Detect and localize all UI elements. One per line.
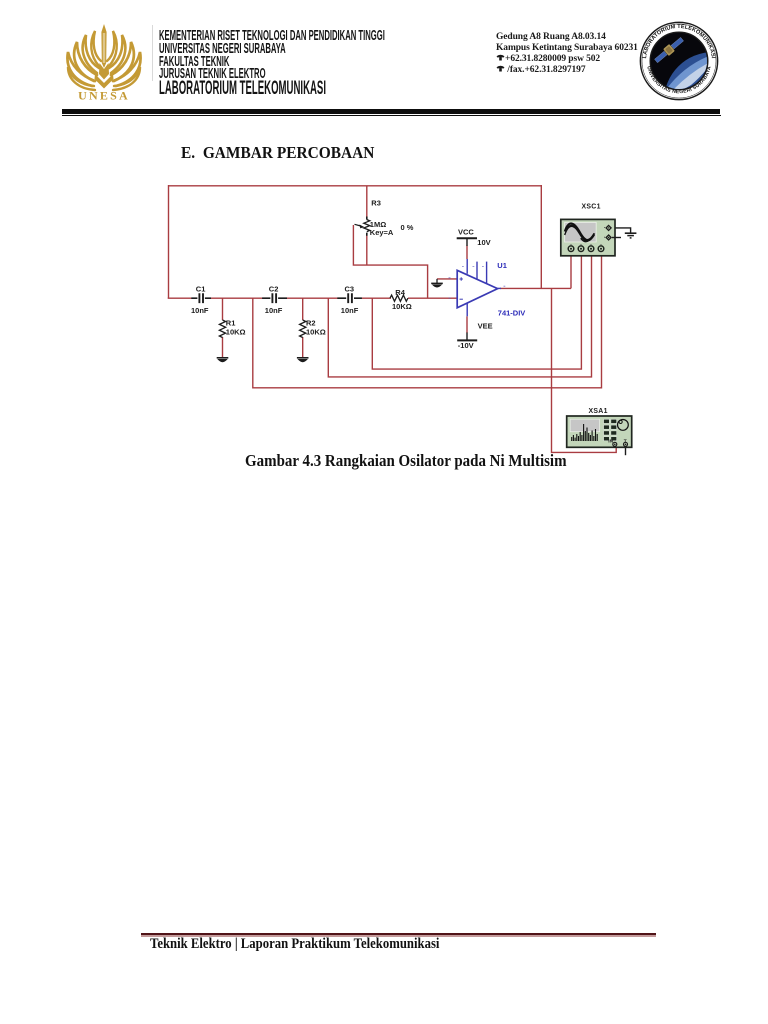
label C3 value: [341, 284, 359, 315]
svg-text:XSC1: XSC1: [582, 204, 601, 211]
wire main line segment C: [286, 297, 338, 299]
svg-text:VCC: VCC: [458, 227, 474, 236]
wire tap node1 to scope D: [253, 251, 602, 387]
capacitor C3: [337, 293, 362, 303]
svg-text:R1: R1: [226, 318, 236, 327]
wire R1 bottom to ground: [222, 337, 224, 358]
svg-text:10KΩ: 10KΩ: [392, 302, 412, 311]
svg-text:C3: C3: [345, 284, 355, 293]
wire R1 top: [222, 298, 224, 320]
header right address block: [496, 32, 606, 42]
svg-text:10KΩ: 10KΩ: [306, 328, 326, 337]
svg-text:U1: U1: [497, 261, 507, 270]
label R4 value: [392, 288, 412, 311]
spectrum analyzer XSA1: [567, 416, 632, 447]
wire main line segment A: [168, 297, 193, 299]
oscilloscope XSC1: [561, 219, 621, 255]
wire main line segment B: [210, 297, 263, 299]
satellite: [653, 36, 685, 65]
wire XSA1 T terminal stub: [625, 447, 627, 456]
label R3 value: [370, 198, 414, 237]
svg-text:-10V: -10V: [458, 341, 474, 350]
svg-text:IN: IN: [608, 439, 613, 445]
wire right feedback: [540, 185, 542, 288]
label C2 value: [265, 284, 283, 315]
capacitor C1: [191, 293, 211, 303]
left wing feathers: [91, 31, 101, 66]
svg-text:741-DIV: 741-DIV: [498, 308, 526, 317]
svg-text:VEE: VEE: [478, 321, 493, 330]
wire R3 bottom lead down: [366, 236, 368, 266]
wire R3 wiper to node: [353, 225, 427, 298]
UNESA logo (gold emblem): [66, 23, 142, 101]
svg-text:0 %: 0 %: [401, 223, 414, 232]
earth: [664, 52, 762, 150]
circular lab logo: [639, 21, 719, 101]
wire tap node3 to scope B: [372, 251, 581, 369]
ground under R2: [297, 358, 309, 362]
svg-text:T: T: [624, 439, 627, 445]
svg-text:XSA1: XSA1: [589, 408, 608, 415]
wire tap node2 to scope C: [328, 251, 591, 377]
faint separator: [152, 25, 153, 81]
svg-text:10nF: 10nF: [341, 306, 359, 315]
wire op-amp output: [500, 287, 571, 289]
wire VCC stem red part: [466, 246, 468, 260]
wire main line segment E: [408, 297, 457, 299]
wire left feedback: [168, 185, 170, 298]
label C1 value: [191, 284, 209, 315]
header rules: [62, 109, 720, 114]
wire scope channel A: [570, 251, 572, 288]
ground at op-amp non-inverting input: [431, 279, 443, 287]
label R1 value: [226, 318, 246, 336]
svg-text:R3: R3: [371, 198, 381, 207]
svg-text:R2: R2: [306, 318, 316, 327]
label VCC: [458, 227, 491, 247]
label VEE: [458, 321, 493, 350]
svg-text:10nF: 10nF: [191, 306, 209, 315]
resistor R1: [219, 320, 225, 337]
wire VEE stem red part: [466, 316, 468, 333]
resistor R2: [300, 320, 306, 337]
VCC power symbol: [457, 238, 477, 246]
potentiometer R3 body: [355, 217, 370, 236]
label U1: [497, 261, 525, 317]
svg-text:R4: R4: [395, 288, 405, 297]
svg-text:10KΩ: 10KΩ: [226, 328, 246, 337]
wire XSC1 ground lead: [612, 228, 631, 233]
svg-text:C1: C1: [196, 284, 206, 293]
capacitor C2: [262, 293, 287, 303]
svg-text:10nF: 10nF: [265, 306, 283, 315]
header institution text: [159, 27, 385, 44]
wire main line segment D: [361, 297, 391, 299]
wire output to spectrum analyzer: [552, 288, 617, 452]
ground under R1: [217, 358, 229, 362]
obelisk: [95, 24, 114, 89]
VEE power symbol: [457, 333, 477, 341]
wire R2 bottom to ground: [302, 337, 304, 358]
wire non-inverting input to ground: [437, 278, 457, 280]
right wing feathers: [107, 31, 117, 66]
ground at XSC1: [625, 233, 637, 238]
V base: [95, 74, 114, 89]
svg-text:10V: 10V: [477, 238, 490, 247]
label R2 value: [306, 318, 326, 336]
wire R2 top: [302, 298, 304, 320]
wire top feedback: [169, 185, 542, 187]
svg-text:Key=A: Key=A: [370, 228, 394, 237]
op-amp U1: [449, 259, 506, 316]
wire R3 top stem: [366, 186, 368, 217]
label XSA1 terminals: [608, 439, 626, 445]
svg-text:C2: C2: [269, 284, 279, 293]
resistor R4: [390, 295, 408, 301]
